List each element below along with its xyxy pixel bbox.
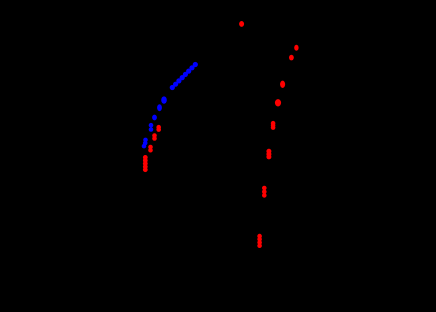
red data series left branch: vertical run of markers [143,155,148,172]
red data series right branch: isolated top marker [239,21,244,27]
red data series left branch: descending markers [148,125,161,153]
blue data series: upper diagonal chain of markers [170,62,198,90]
red data series right branch: stacked marker clusters [257,121,275,248]
red data series right branch: upper markers [275,45,299,107]
blue data series: lower-left markers [142,138,148,149]
blue data series: mid-section markers [149,96,167,131]
